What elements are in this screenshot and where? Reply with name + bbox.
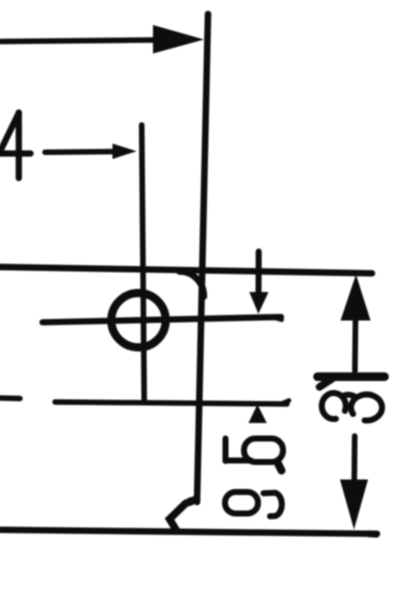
break zigzag — [170, 500, 196, 531]
break zigzag joint blob — [186, 497, 194, 505]
flange top edge line — [0, 267, 372, 273]
31 dimension line upper stub — [352, 318, 358, 371]
31 dimension lower arrowhead (points down) — [340, 480, 368, 530]
31 dimension upper arrowhead (points up) — [341, 275, 371, 321]
dimension text 9,5 : comma — [278, 463, 282, 471]
bottom edge end nub — [369, 530, 377, 537]
hole H1 (circle) — [111, 293, 165, 347]
31 dimension line lower stub — [351, 436, 357, 479]
centre line end tick — [275, 318, 282, 320]
hidden line end hook — [282, 401, 289, 404]
glyph 1 flag — [320, 379, 333, 388]
dimension arrow for 4 (tail) — [45, 149, 124, 155]
dimension text 9,5 : glyph 9 — [225, 492, 282, 516]
dimension text 9,5 (rotated) : glyph 5 — [226, 439, 284, 463]
hole centre extension line (vertical) — [142, 125, 145, 399]
top dimension arrowhead — [153, 25, 204, 54]
part bottom edge / extension line — [0, 530, 377, 534]
bend fillet arc — [180, 271, 204, 296]
9,5 lower arrowhead (points up) — [249, 405, 267, 424]
part right edge (long vertical line) — [197, 14, 208, 502]
hidden edge dashed line (dash 1) — [0, 395, 20, 401]
top dimension line (tail) — [0, 40, 153, 42]
dimension arrow for 4 (head) — [113, 144, 137, 159]
dimension text 4 — [0, 113, 31, 179]
dimension text 31 (rotated) : glyph 3 — [322, 393, 382, 420]
dimension text 31 (rotated) : glyph 1 — [318, 372, 385, 381]
hole centre line (horizontal) — [43, 317, 282, 322]
9,5 upper arrowhead (points down) — [249, 292, 268, 314]
9,5 upper extension+arrow line — [256, 252, 262, 296]
hidden edge dashed line (dash 2) — [55, 402, 287, 404]
